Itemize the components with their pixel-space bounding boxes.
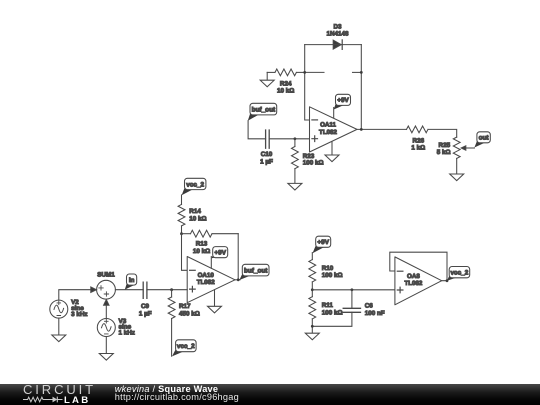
source V2: [50, 299, 88, 318]
wire top loop: [305, 44, 362, 46]
ground (OA11): [325, 142, 339, 162]
wire R26 to R25: [428, 129, 457, 137]
svg-text:10 kΩ: 10 kΩ: [189, 215, 206, 222]
svg-text:TL082: TL082: [319, 129, 337, 136]
summer SUM1: [97, 272, 116, 300]
ground (R24): [260, 72, 274, 86]
op-amp OA11: [310, 107, 358, 152]
resistor R13: [182, 230, 239, 255]
svg-text:1 µF: 1 µF: [139, 310, 152, 317]
wire stub left (open): [305, 71, 324, 73]
svg-text:450 kΩ: 450 kΩ: [179, 310, 200, 317]
svg-text:out: out: [479, 135, 490, 142]
wire V2 to ground: [58, 318, 60, 335]
wire buf_out to C10: [248, 121, 266, 139]
svg-text:1 kΩ: 1 kΩ: [411, 145, 425, 152]
resistor R11: [309, 297, 343, 334]
power flag +9V (OA10): [211, 247, 227, 269]
svg-text:R14: R14: [189, 208, 201, 215]
svg-text:R17: R17: [179, 303, 191, 310]
svg-text:R11: R11: [322, 302, 334, 309]
svg-text:+9V: +9V: [214, 250, 226, 257]
svg-text:100 kΩ: 100 kΩ: [322, 272, 343, 279]
net flag vcc_2 (top): [182, 178, 206, 195]
svg-text:10 kΩ: 10 kΩ: [277, 88, 294, 95]
svg-text:R13: R13: [196, 241, 208, 248]
resistor R26: [407, 126, 428, 152]
svg-text:5 kΩ: 5 kΩ: [437, 149, 451, 156]
resistor R17: [168, 290, 200, 357]
svg-text:+9V: +9V: [317, 239, 329, 246]
capacitor C9: [139, 282, 152, 317]
node R11/C6 bottom junction: [311, 325, 314, 328]
svg-text:buf_out: buf_out: [252, 107, 276, 114]
op-amp OA8: [395, 257, 442, 305]
diode D3: [326, 23, 349, 49]
svg-text:OA10: OA10: [198, 272, 215, 279]
resistor R24: [267, 69, 305, 95]
wire V2 to SUM1 with arrow: [59, 287, 97, 300]
svg-text:in: in: [129, 277, 135, 284]
ground (R25): [450, 174, 464, 181]
wire V3 to SUM1 with arrow: [104, 300, 109, 319]
svg-text:100 nF: 100 nF: [365, 310, 385, 317]
svg-text:1 kHz: 1 kHz: [119, 330, 135, 337]
svg-text:OA8: OA8: [407, 273, 420, 280]
ground (V3): [99, 354, 113, 361]
wire SUM1 to C9: [115, 289, 143, 291]
node OA10 output junction: [237, 278, 240, 281]
wire R25 to ground: [456, 158, 458, 174]
svg-text:C10: C10: [261, 151, 273, 158]
node R10/R11 junction: [311, 288, 314, 291]
power flag +9V (R10): [313, 236, 331, 253]
ground (R23): [288, 183, 302, 190]
svg-text:buf_out: buf_out: [244, 268, 268, 275]
node C6 top junction: [351, 288, 354, 291]
capacitor C6: [312, 290, 385, 327]
net flag out: [474, 132, 490, 148]
svg-text:1N4148: 1N4148: [326, 31, 349, 38]
resistor R14: [178, 204, 207, 233]
wire V3 to ground: [105, 337, 107, 354]
svg-text:R26: R26: [413, 137, 425, 144]
ground (OA10): [208, 290, 222, 313]
svg-text:R24: R24: [280, 81, 292, 88]
wire OA11 output: [357, 128, 407, 130]
svg-text:1 µF: 1 µF: [260, 158, 273, 165]
wire OA10 output: [235, 279, 240, 281]
capacitor C10: [260, 130, 273, 165]
svg-text:vcc_2: vcc_2: [451, 270, 469, 277]
net flag buf_out (OA10 output): [239, 264, 269, 280]
svg-text:100 kΩ: 100 kΩ: [303, 160, 324, 167]
net flag vcc_2 (R17 bottom): [172, 340, 196, 357]
CircuitLab logo: [23, 385, 133, 405]
svg-text:vcc_2: vcc_2: [186, 181, 204, 188]
wire +9V to R10: [311, 253, 313, 260]
node C9/R17 junction: [170, 288, 173, 291]
net flag vcc_2 (OA8 output): [447, 267, 470, 281]
svg-text:TL082: TL082: [404, 280, 422, 287]
wire stub right (open): [353, 71, 362, 73]
ground (divider): [305, 333, 319, 340]
net flag in: [125, 274, 137, 290]
node output/diode loop: [360, 128, 363, 131]
wire left loop vertical: [305, 45, 310, 120]
power flag +9V (OA11): [334, 94, 351, 118]
svg-text:TL082: TL082: [197, 279, 215, 286]
wire OA8 feedback loop: [390, 252, 447, 281]
svg-text:C9: C9: [141, 303, 150, 310]
node C10/R23 junction: [294, 137, 297, 140]
svg-text:+9V: +9V: [337, 97, 349, 104]
resistor R23: [292, 139, 324, 184]
svg-text:SUM1: SUM1: [97, 272, 115, 279]
svg-text:C6: C6: [365, 303, 374, 310]
wire vcc_2 to R14: [181, 195, 183, 205]
node R14/R13 junction: [180, 232, 183, 235]
svg-text:100 kΩ: 100 kΩ: [322, 309, 343, 316]
wire feedback right (OA10): [237, 234, 239, 280]
node junction left loop: [303, 71, 306, 74]
source V3: [97, 318, 135, 337]
svg-text:R10: R10: [322, 265, 334, 272]
wire right loop vertical: [360, 45, 362, 130]
net flag buf_out (top): [248, 103, 277, 121]
svg-text:OA11: OA11: [320, 122, 336, 129]
bottom credit bar: [0, 384, 540, 405]
svg-text:10 kΩ: 10 kΩ: [193, 248, 210, 255]
svg-text:D3: D3: [333, 23, 342, 30]
svg-text:3 kHz: 3 kHz: [71, 311, 87, 318]
ground (V2): [52, 335, 66, 342]
wire divider to OA8 + input: [312, 289, 395, 291]
wire C10 to OA11 + input: [269, 138, 309, 140]
node junction right loop: [360, 71, 363, 74]
wire C9 to OA10 + input: [147, 289, 187, 291]
op-amp OA10: [187, 257, 235, 303]
resistor R10: [309, 260, 343, 297]
node OA8 output: [446, 279, 449, 282]
potentiometer R25: [437, 137, 475, 158]
svg-text:vcc_2: vcc_2: [177, 343, 195, 350]
wire feedback left / minus input (OA10): [182, 234, 188, 271]
